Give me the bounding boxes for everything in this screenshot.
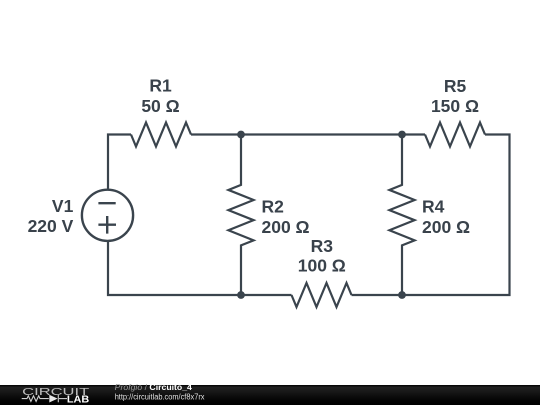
svg-text:220 V: 220 V xyxy=(28,216,74,236)
svg-text:http://circuitlab.com/cf8x7rx: http://circuitlab.com/cf8x7rx xyxy=(115,392,205,401)
svg-text:200 Ω: 200 Ω xyxy=(422,217,470,237)
svg-text:V1: V1 xyxy=(52,196,74,216)
svg-text:100 Ω: 100 Ω xyxy=(298,256,346,276)
svg-text:200 Ω: 200 Ω xyxy=(262,217,310,237)
svg-text:R1: R1 xyxy=(149,76,172,96)
svg-text:Profgio / Circuito_4: Profgio / Circuito_4 xyxy=(115,383,193,392)
svg-text:50 Ω: 50 Ω xyxy=(141,96,179,116)
svg-text:LAB: LAB xyxy=(67,394,89,405)
svg-text:150 Ω: 150 Ω xyxy=(431,96,479,116)
svg-text:R2: R2 xyxy=(262,197,285,217)
svg-text:R4: R4 xyxy=(422,197,445,217)
svg-text:R5: R5 xyxy=(444,76,467,96)
svg-text:R3: R3 xyxy=(311,236,334,256)
